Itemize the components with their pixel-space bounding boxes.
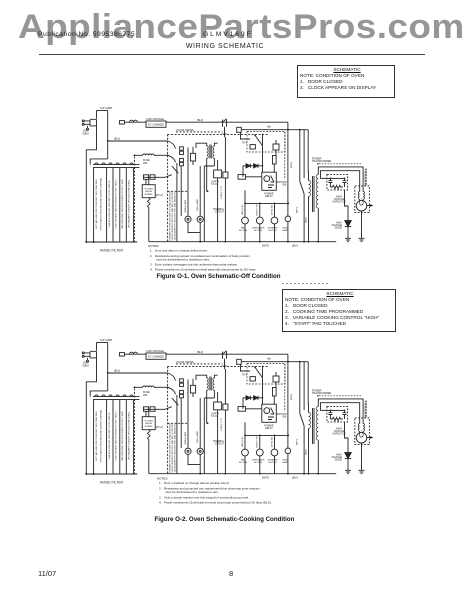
svg-text:3. Error surface messages us: 3. Error surface messages use this under…	[150, 263, 238, 267]
svg-text:1. Door in latched no change: 1. Door in latched no change defrost pos…	[159, 481, 230, 485]
notes block figure O-1	[148, 244, 257, 272]
svg-text:NOTES:: NOTES:	[148, 244, 159, 248]
header right: model	[203, 31, 253, 38]
caption fig 1	[0, 273, 437, 280]
notes block figure O-2	[157, 476, 272, 504]
svg-text:3. Only a simple reaction us: 3. Only a simple reaction use this integ…	[159, 495, 249, 499]
footer	[38, 569, 56, 578]
title	[0, 43, 450, 50]
rule under title	[39, 54, 425, 55]
caption fig 2	[0, 516, 449, 523]
svg-text:4. Power transformer (2nd) l: 4. Power transformer (2nd) leads termina…	[150, 267, 257, 271]
svg-text:1. Door and alarm in change: 1. Door and alarm in change defrost time…	[150, 249, 208, 253]
note box 1	[297, 65, 395, 98]
figure O-1 schematic instance	[82, 107, 372, 253]
header left: publication no	[38, 31, 135, 38]
svg-text:must be administered to resist: must be administered to resistance zero.	[156, 257, 210, 261]
svg-text:4. Power transformer (2nd) l: 4. Power transformer (2nd) leads termina…	[159, 500, 272, 504]
note box 2	[282, 289, 396, 332]
watermark	[18, 8, 464, 47]
faint dotted line under caption1 right	[282, 283, 329, 284]
figure O-2 schematic instance	[82, 339, 372, 485]
svg-text:must be administered to resist: must be administered to resistance zero.	[165, 490, 219, 494]
svg-text:NOTES:: NOTES:	[157, 476, 168, 480]
